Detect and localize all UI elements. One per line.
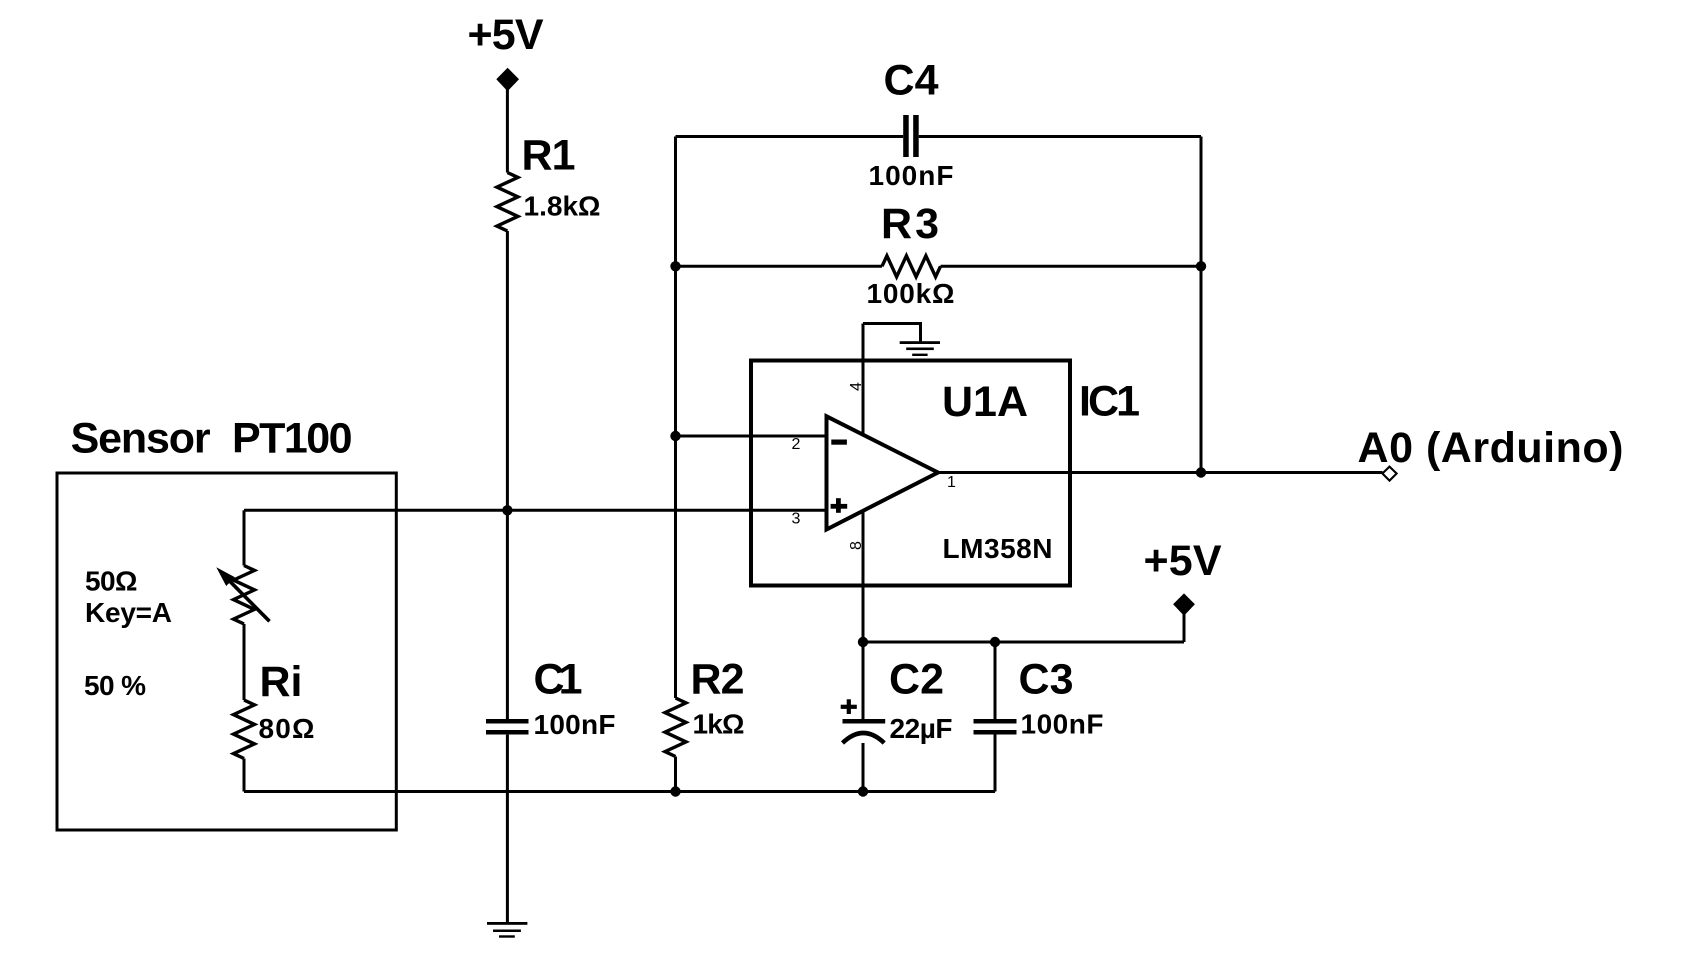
svg-text:+5V: +5V <box>468 11 544 59</box>
svg-text:80Ω: 80Ω <box>259 713 315 744</box>
svg-text:3: 3 <box>792 511 801 528</box>
svg-text:22µF: 22µF <box>890 713 953 744</box>
svg-text:R3: R3 <box>881 200 939 248</box>
wire R2 bottom <box>674 757 677 792</box>
wire Ri to bottom <box>243 759 246 792</box>
wire C4 left <box>676 135 904 138</box>
svg-text:50Ω: 50Ω <box>85 566 138 597</box>
wire C1 to ground <box>506 735 509 924</box>
svg-text:Key=A: Key=A <box>85 597 172 628</box>
node junction C3 top <box>990 637 1000 647</box>
svg-text:+5V: +5V <box>1144 537 1222 585</box>
wire C2 bottom <box>862 743 865 792</box>
wire sensor top <box>243 510 246 565</box>
wire pin2 horizontal <box>676 435 827 438</box>
svg-text:C2: C2 <box>889 656 944 704</box>
svg-text:C1: C1 <box>534 656 583 704</box>
wire bottom net <box>244 790 995 793</box>
svg-text:100nF: 100nF <box>1021 709 1104 740</box>
node junction R2 bottom <box>670 786 680 796</box>
wire R3 left <box>676 265 883 268</box>
node junction R3 right <box>1196 261 1206 271</box>
node junction pin2 <box>670 431 680 441</box>
svg-text:4: 4 <box>848 382 865 391</box>
svg-text:100nF: 100nF <box>534 709 616 740</box>
svg-text:2: 2 <box>792 436 801 453</box>
wire ground stub vertical <box>919 322 922 343</box>
node junction C2 bottom <box>858 786 868 796</box>
svg-text:PT100: PT100 <box>232 415 353 463</box>
svg-text:Ri: Ri <box>260 658 303 706</box>
svg-text:1.8kΩ: 1.8kΩ <box>524 191 601 222</box>
resistor Ri <box>234 700 255 759</box>
capacitor C4 plates <box>903 115 909 157</box>
potentiometer arrowhead <box>218 569 235 586</box>
ground symbol at op-amp <box>900 341 940 344</box>
resistor R1 <box>497 173 518 232</box>
svg-text:1kΩ: 1kΩ <box>693 709 745 740</box>
wire pin4 vertical <box>862 324 865 435</box>
svg-text:C3: C3 <box>1019 656 1074 704</box>
op-amp minus input sign <box>831 440 847 445</box>
capacitor C2 plates <box>843 719 886 724</box>
wire +5V to R1 <box>506 88 509 173</box>
svg-text:C4: C4 <box>884 57 939 105</box>
capacitor C1 plates <box>486 719 529 724</box>
node junction R3 left <box>670 261 680 271</box>
wire ground stub horizontal <box>863 322 921 325</box>
svg-text:50 %: 50 % <box>84 670 146 701</box>
potentiometer arrow line <box>228 580 269 622</box>
wire right vertical net <box>1200 137 1203 473</box>
svg-text:R2: R2 <box>691 656 745 704</box>
svg-text:U1A: U1A <box>942 378 1028 426</box>
wire C4 right <box>919 135 1201 138</box>
sensor PT100 box <box>57 473 396 830</box>
potentiometer zigzag <box>234 566 255 625</box>
ground symbol bottom <box>487 922 527 925</box>
svg-text:LM358N: LM358N <box>943 533 1053 564</box>
svg-text:R1: R1 <box>522 132 576 180</box>
wire C3 top <box>994 642 997 719</box>
node A0 diamond <box>1382 467 1396 481</box>
wire R3 right <box>941 265 1202 268</box>
svg-text:Sensor: Sensor <box>71 415 211 463</box>
power +5V diamond top <box>496 68 519 92</box>
wire pin8 to C2 <box>862 511 865 720</box>
svg-text:A0 (Arduino): A0 (Arduino) <box>1358 424 1624 472</box>
wire +5V diamond drop <box>1183 612 1186 642</box>
wire node pin3 horizontal <box>244 509 826 512</box>
power +5V diamond right <box>1173 593 1195 615</box>
op-amp U1A triangle <box>827 416 939 529</box>
svg-text:8: 8 <box>848 541 865 550</box>
op-amp plus input sign <box>831 504 848 509</box>
svg-text:IC1: IC1 <box>1079 378 1140 426</box>
svg-text:100nF: 100nF <box>869 160 954 191</box>
node junction pin8 rail <box>858 637 868 647</box>
svg-text:100kΩ: 100kΩ <box>867 278 955 309</box>
capacitor C3 plates <box>974 719 1017 724</box>
node junction output <box>1196 467 1206 477</box>
wire pot to Ri <box>243 624 246 700</box>
node junction pin3 <box>502 505 512 515</box>
resistor R2 <box>665 698 686 757</box>
wire +5V rail to pin8 <box>863 641 1184 644</box>
resistor R3 <box>882 256 941 277</box>
wire C3 bottom <box>994 735 997 792</box>
svg-text:1: 1 <box>947 474 956 491</box>
op-amp U1 box <box>751 361 1070 586</box>
wire output to A0 <box>938 471 1383 474</box>
wire left vertical net <box>674 137 677 699</box>
capacitor C2 plus sign <box>841 705 857 709</box>
wire R1 to C1 <box>506 231 509 719</box>
